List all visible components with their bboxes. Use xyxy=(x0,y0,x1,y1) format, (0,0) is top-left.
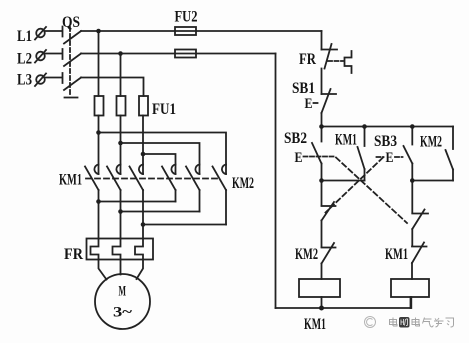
svg-text:QS: QS xyxy=(62,14,80,31)
svg-text:FU2: FU2 xyxy=(175,9,198,26)
svg-text:KM2: KM2 xyxy=(232,175,254,192)
svg-text:KM2: KM2 xyxy=(420,134,442,151)
svg-text:M: M xyxy=(119,284,127,300)
svg-text:KM1: KM1 xyxy=(385,246,408,263)
svg-text:E: E xyxy=(295,150,303,166)
svg-text:KM1: KM1 xyxy=(335,132,357,149)
svg-text:KM1: KM1 xyxy=(304,316,326,333)
svg-text:L2: L2 xyxy=(17,51,32,68)
svg-text:L1: L1 xyxy=(17,28,32,45)
svg-text:FR: FR xyxy=(299,51,316,68)
svg-text:FU1: FU1 xyxy=(152,101,176,118)
svg-text:SB3: SB3 xyxy=(374,133,397,150)
svg-text:L3: L3 xyxy=(17,72,32,89)
svg-text:SB1: SB1 xyxy=(292,80,315,97)
svg-text:E: E xyxy=(386,150,394,166)
svg-text:E: E xyxy=(305,96,313,112)
svg-text:3~: 3~ xyxy=(113,305,132,321)
svg-text:FR: FR xyxy=(64,246,83,263)
svg-text:KM2: KM2 xyxy=(295,246,318,263)
svg-text:SB2: SB2 xyxy=(284,130,307,147)
svg-text:KM1: KM1 xyxy=(59,172,82,189)
